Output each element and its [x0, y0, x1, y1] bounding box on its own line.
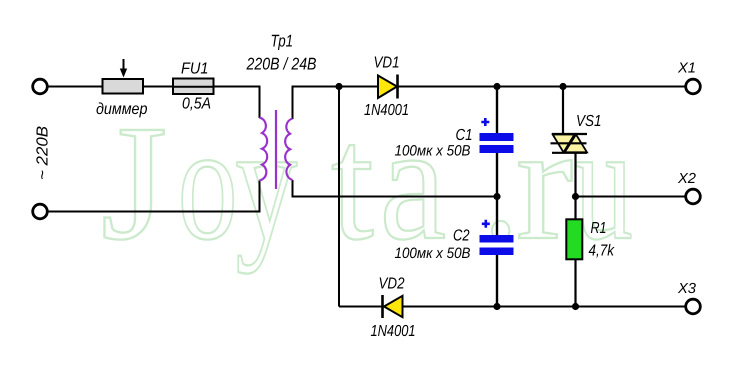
watermark Joyta.ru: [101, 91, 633, 274]
svg-text:диммер: диммер: [96, 101, 148, 118]
svg-text:o: o: [178, 91, 238, 274]
terminal input bottom: [33, 204, 48, 219]
svg-text:.: .: [482, 91, 519, 274]
dimmer arrow: [123, 59, 125, 71]
svg-text:C2: C2: [453, 228, 470, 245]
node top VD1 branch: [335, 83, 342, 90]
fuse FU1: [173, 79, 214, 95]
svg-text:y: y: [236, 91, 298, 274]
node middle VS1-R1: [572, 193, 579, 200]
terminal input top: [33, 79, 48, 94]
node top C1: [493, 83, 500, 90]
svg-text:VD1: VD1: [374, 55, 400, 72]
svg-text:1N4001: 1N4001: [371, 323, 416, 340]
wire VS1 leads: [562, 87, 564, 135]
svg-text:Тр1: Тр1: [271, 32, 294, 51]
dimmer box: [103, 79, 144, 94]
svg-text:220В / 24В: 220В / 24В: [246, 55, 317, 74]
node bottom C2: [493, 303, 500, 310]
wire secondary bottom to middle rail left segment: [293, 180, 498, 197]
svg-text:r: r: [516, 91, 573, 274]
transformer T1 primary winding: [260, 118, 268, 181]
svg-text:100мк x 50В: 100мк x 50В: [395, 245, 471, 262]
node top VS1: [559, 83, 566, 90]
wire middle rail right segment to X2: [576, 196, 686, 198]
wire vertical branch VD1-VD2: [338, 87, 340, 307]
svg-text:4,7k: 4,7k: [589, 243, 615, 260]
svg-text:0,5А: 0,5А: [182, 96, 211, 113]
capacitor C1: [480, 133, 514, 141]
svg-text:R1: R1: [591, 220, 607, 237]
svg-text:FU1: FU1: [181, 61, 209, 78]
diode VD2: [384, 296, 403, 317]
terminal X2: [686, 189, 701, 204]
svg-text:1N4001: 1N4001: [364, 102, 409, 119]
svg-text:J: J: [101, 91, 167, 274]
wire C1 leads: [496, 87, 498, 135]
svg-text:VD2: VD2: [379, 276, 405, 293]
capacitor C2: [480, 235, 514, 243]
node bottom R1: [572, 303, 579, 310]
svg-text:X1: X1: [677, 61, 696, 77]
terminal X3: [686, 299, 701, 314]
svg-text:100мк x 50В: 100мк x 50В: [395, 142, 471, 159]
wire R1 leads: [574, 197, 576, 220]
svg-text:~ 220В: ~ 220В: [35, 126, 52, 180]
wire C2 leads: [496, 197, 498, 237]
svg-text:VS1: VS1: [576, 113, 602, 130]
C1 plus: [481, 118, 489, 126]
transformer T1 core: [275, 110, 277, 189]
C2 plus: [482, 220, 490, 228]
wire bottom rail to X3: [339, 306, 686, 308]
diode VD1: [378, 76, 397, 99]
transformer T1 secondary winding: [285, 119, 292, 181]
svg-text:X3: X3: [677, 281, 696, 297]
wire secondary top to X1: [293, 87, 686, 120]
wire bottom-left from input terminal to primary bottom: [48, 181, 260, 212]
terminal X1: [686, 79, 701, 94]
svg-text:X2: X2: [677, 171, 696, 187]
triac VS1: [551, 134, 588, 153]
wire top-left from input terminal through dimmer and fuse to primary: [48, 87, 260, 119]
resistor R1: [566, 219, 582, 259]
node middle C1-C2: [493, 193, 500, 200]
